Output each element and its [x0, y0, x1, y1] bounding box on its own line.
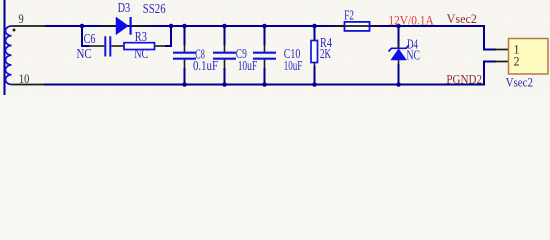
svg-text:SS26: SS26 — [143, 1, 166, 16]
capacitor C9 — [213, 26, 236, 85]
svg-text:2: 2 — [514, 53, 520, 68]
connector pin 1 — [495, 49, 509, 51]
junction C9 bottom — [222, 82, 227, 87]
junction C9 top — [222, 24, 227, 29]
zener diode D4 — [389, 26, 410, 85]
polarity dot — [13, 29, 16, 32]
svg-text:R3: R3 — [135, 29, 147, 44]
capacitor C8 — [173, 26, 196, 85]
resistor R4 — [311, 26, 318, 85]
svg-text:2K: 2K — [320, 46, 331, 61]
wire snubber drop — [82, 26, 90, 46]
resistor R3 — [124, 43, 165, 50]
capacitor C6 — [90, 36, 125, 56]
svg-text:10uF: 10uF — [238, 58, 258, 73]
svg-text:NC: NC — [77, 46, 92, 61]
wire top rail (net Vsec2) — [45, 26, 496, 50]
svg-text:10uF: 10uF — [284, 58, 303, 73]
junction D4 top — [396, 24, 401, 29]
svg-text:NC: NC — [134, 46, 148, 61]
connector body Vsec2 — [509, 39, 549, 75]
svg-text:F2: F2 — [344, 8, 354, 23]
svg-text:Vsec2: Vsec2 — [506, 74, 533, 89]
capacitor C10 — [253, 26, 276, 85]
junction A (snubber drop, top rail) — [80, 24, 85, 29]
wire bottom rail (net PGND2) — [44, 62, 496, 85]
transformer secondary winding — [6, 26, 12, 85]
connector pin 2 — [495, 61, 509, 63]
transformer core line (left edge) — [4, 0, 6, 95]
svg-text:0.1uF: 0.1uF — [193, 58, 218, 73]
svg-text:9: 9 — [19, 11, 24, 26]
junction C8 top — [182, 24, 187, 29]
junction C10 top — [262, 24, 267, 29]
diode D3 — [99, 17, 146, 35]
svg-text:PGND2: PGND2 — [446, 72, 482, 87]
pin 9 — [12, 25, 46, 27]
svg-text:Vsec2: Vsec2 — [447, 11, 477, 26]
junction C10 bottom — [262, 82, 267, 87]
junction C8 bottom — [182, 82, 187, 87]
svg-text:NC: NC — [407, 48, 421, 63]
pin 10 — [12, 84, 45, 86]
svg-text:12V/0.1A: 12V/0.1A — [388, 13, 433, 27]
svg-text:D3: D3 — [118, 0, 131, 15]
junction B (snubber return, top rail) — [169, 24, 174, 29]
svg-text:C6: C6 — [84, 31, 96, 46]
svg-text:10: 10 — [19, 71, 30, 86]
wire snubber return — [165, 26, 171, 46]
junction D4 bottom — [396, 82, 401, 87]
fuse F2 — [334, 22, 378, 31]
junction R4 bottom — [312, 82, 317, 87]
junction R4 top — [312, 24, 317, 29]
